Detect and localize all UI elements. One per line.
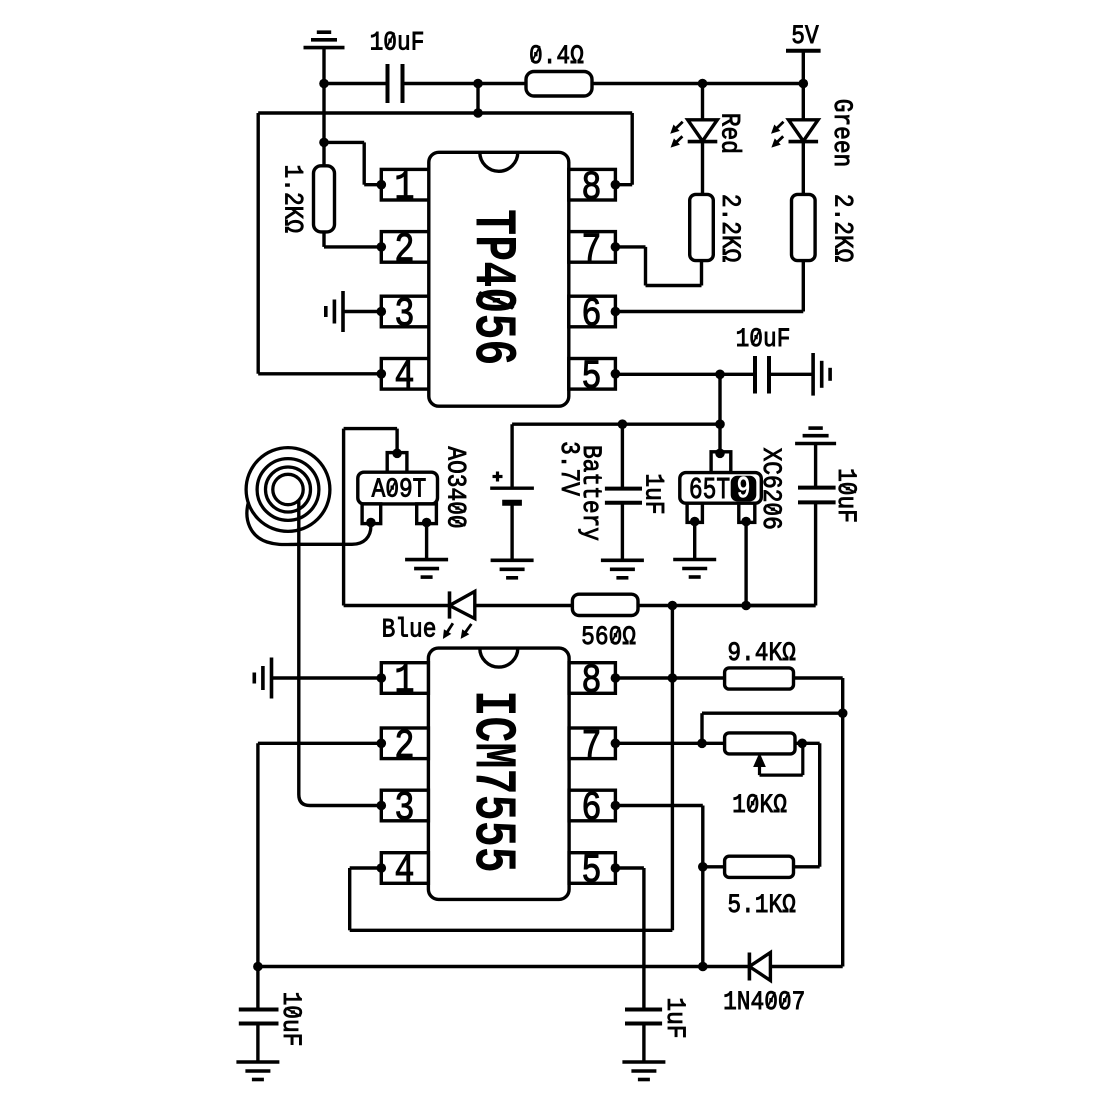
svg-text:4: 4 — [394, 355, 414, 401]
svg-text:1N4007: 1N4007 — [723, 986, 805, 1017]
svg-text:Blue: Blue — [382, 614, 437, 645]
svg-text:Red: Red — [714, 113, 745, 154]
svg-text:0.4Ω: 0.4Ω — [529, 40, 584, 71]
svg-text:5: 5 — [581, 355, 601, 401]
svg-text:10uF: 10uF — [736, 323, 791, 354]
svg-text:1uF: 1uF — [659, 997, 690, 1038]
svg-text:3: 3 — [394, 292, 414, 338]
svg-text:TP4056: TP4056 — [458, 209, 525, 365]
svg-text:5V: 5V — [791, 20, 818, 51]
svg-text:7: 7 — [581, 724, 601, 770]
svg-text:AO3400: AO3400 — [440, 446, 471, 528]
svg-text:1.2KΩ: 1.2KΩ — [277, 165, 308, 234]
svg-text:10KΩ: 10KΩ — [732, 789, 787, 820]
svg-text:5.1KΩ: 5.1KΩ — [727, 889, 796, 920]
svg-text:2.2KΩ: 2.2KΩ — [714, 194, 745, 263]
svg-text:9.4KΩ: 9.4KΩ — [727, 637, 796, 668]
svg-text:10uF: 10uF — [830, 468, 861, 523]
svg-text:560Ω: 560Ω — [581, 621, 636, 652]
svg-text:2: 2 — [394, 228, 414, 274]
svg-text:7: 7 — [581, 228, 601, 274]
svg-text:6: 6 — [581, 786, 601, 832]
svg-text:XC6206: XC6206 — [755, 448, 786, 530]
svg-text:1: 1 — [394, 166, 414, 212]
svg-text:10uF: 10uF — [275, 992, 306, 1047]
svg-text:4: 4 — [394, 849, 414, 895]
svg-text:3: 3 — [394, 786, 414, 832]
svg-text:1: 1 — [394, 659, 414, 705]
svg-text:2.2KΩ: 2.2KΩ — [827, 194, 858, 263]
svg-text:8: 8 — [581, 166, 601, 212]
svg-text:9: 9 — [737, 472, 751, 507]
svg-text:A09T: A09T — [372, 475, 427, 505]
svg-text:Battery: Battery — [575, 445, 606, 541]
svg-text:8: 8 — [581, 659, 601, 705]
svg-text:2: 2 — [394, 724, 414, 770]
svg-text:1uF: 1uF — [638, 473, 669, 514]
svg-text:5: 5 — [581, 849, 601, 895]
svg-text:Green: Green — [826, 99, 857, 168]
svg-text:6: 6 — [581, 292, 601, 338]
svg-text:65T: 65T — [689, 473, 730, 508]
svg-text:ICM7555: ICM7555 — [458, 690, 525, 872]
svg-text:10uF: 10uF — [370, 27, 425, 58]
